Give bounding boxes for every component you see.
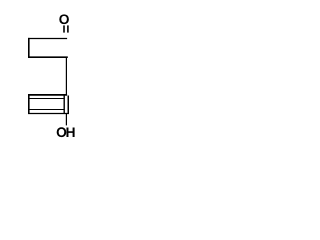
- node OH: hydroxyl label: [57, 127, 67, 137]
- ring benzene bottom edge: [28, 113, 69, 115]
- ring double bond inner line top: [28, 98, 65, 100]
- ring benzene left edge: [28, 94, 30, 114]
- wire bond: C3 to C4 (middle horizontal): [28, 56, 68, 58]
- wire bond: C4 down to ring (right vertical upper): [65, 57, 67, 96]
- wire bond: ring to OH (right vertical lower): [65, 113, 67, 125]
- node OH: H of hydroxyl label: [66, 127, 74, 136]
- wire bond: C2 to C3 (left vertical): [28, 38, 30, 58]
- wire bond: aldehyde C to C2 (top horizontal): [28, 38, 67, 40]
- ring benzene top edge: [28, 94, 67, 96]
- chemical structure: 4-(4-hydroxyphenyl)butanal skeletal formula: [0, 0, 108, 152]
- ring double bond inner line bottom: [28, 109, 65, 111]
- ring benzene right edge: [67, 96, 69, 114]
- wire C=O double bond tick 2: [67, 25, 69, 32]
- ring double bond inner line right: [63, 95, 65, 113]
- node O: carbonyl oxygen label: [59, 14, 69, 24]
- wire C=O double bond tick 1: [63, 25, 65, 32]
